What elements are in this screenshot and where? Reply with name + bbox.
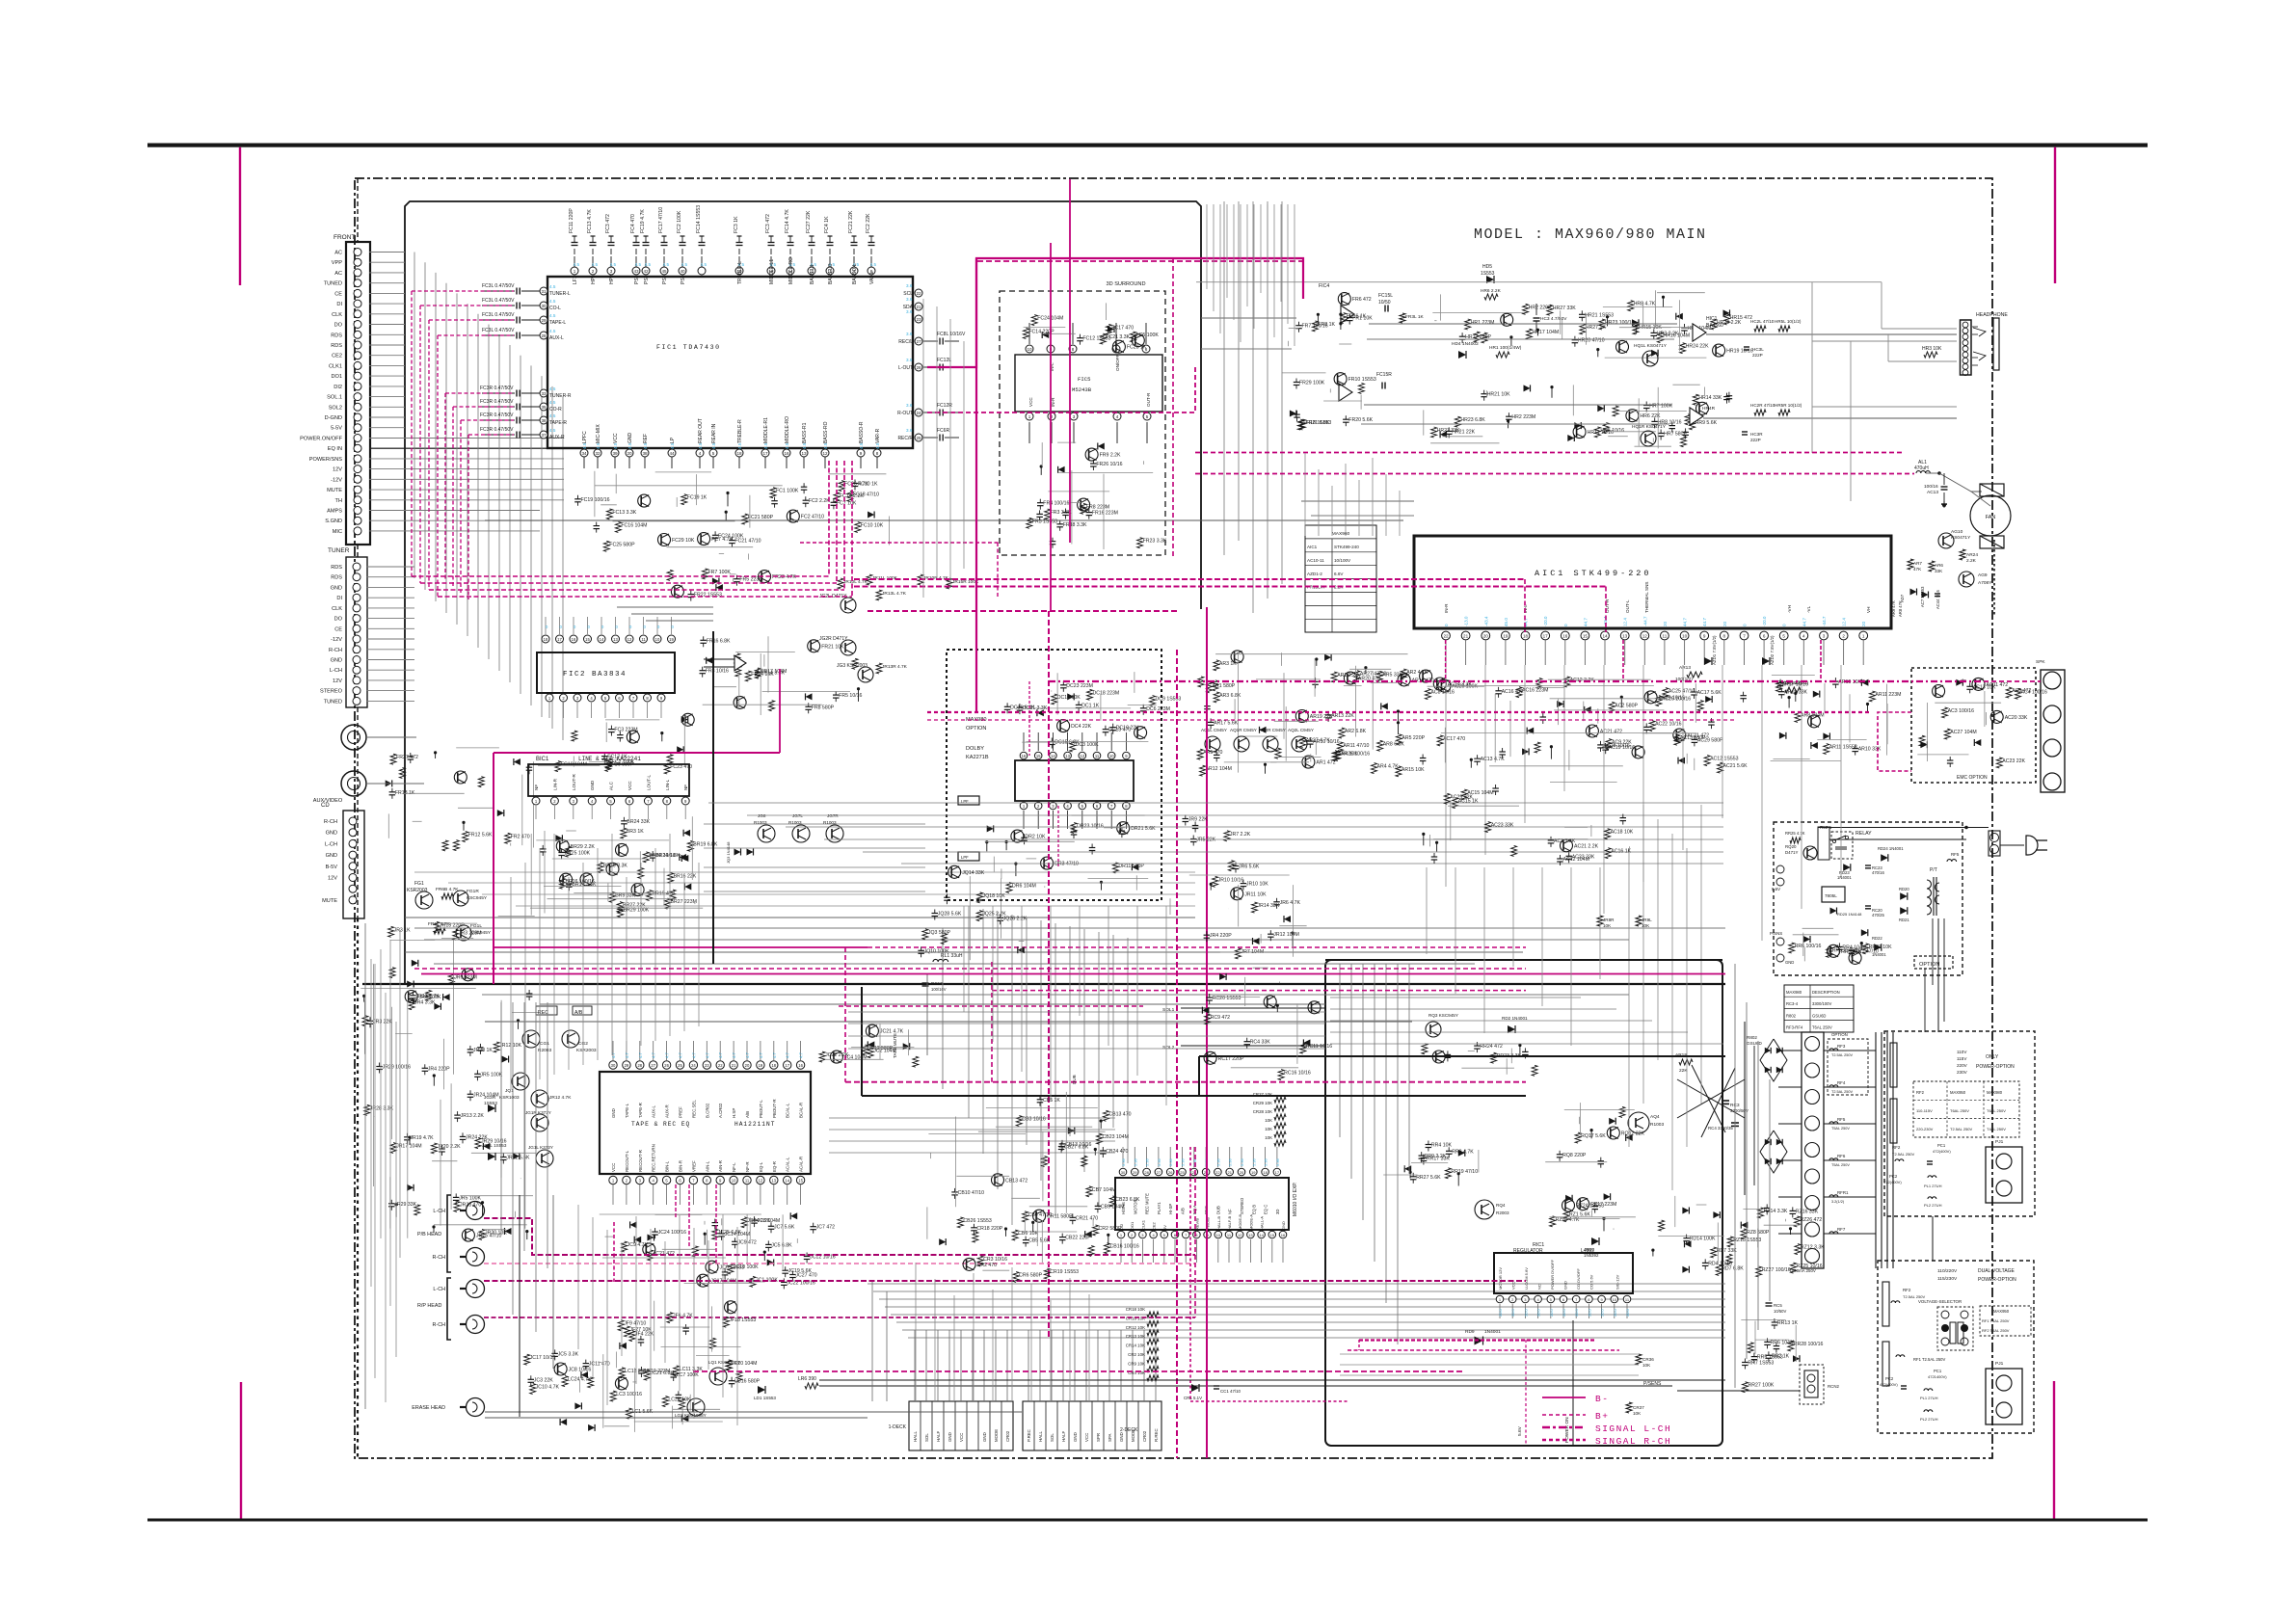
svg-text:CR21 470: CR21 470 [1076,1215,1098,1221]
svg-text:110-115V: 110-115V [1916,1108,1933,1113]
svg-text:20.0: 20.0 [1549,1308,1554,1317]
wires mid right verticals down to power [1628,848,1630,1147]
magenta AIC pin drops [1445,640,1447,681]
svg-text:T4AL 250V: T4AL 250V [1987,1127,2006,1131]
cluster EMC coils caps [1974,739,1981,746]
svg-text:40: 40 [680,269,685,274]
svg-text:FC2 100K: FC2 100K [677,210,682,233]
wire vertical x978 down [942,928,944,1089]
svg-text:AR13: AR13 [1679,665,1691,671]
svg-text:FC25 580P: FC25 580P [609,542,635,547]
svg-text:REC.SEL: REC.SEL [691,1100,696,1118]
svg-text:5.36: 5.36 [1181,1157,1186,1166]
svg-text:AC21 5.6K: AC21 5.6K [1723,763,1749,769]
svg-text:KSR2003: KSR2003 [407,888,428,893]
svg-text:R1003: R1003 [754,820,767,825]
resistor CR37 10K [1626,1402,1632,1413]
svg-text:-12V: -12V [331,637,342,643]
svg-text:JR3 100K: JR3 100K [419,995,441,1000]
magenta vertical x1090 upper [1050,243,1052,611]
svg-text:POWER DV/OFF: POWER DV/OFF [1550,1260,1555,1290]
wire erase head long [485,1021,1412,1023]
svg-text:BR24 33K: BR24 33K [627,819,650,825]
svg-text:SOL2: SOL2 [329,405,342,411]
wire deck tables to M6010 verticals [915,1263,917,1401]
svg-text:KSR2003: KSR2003 [576,1048,597,1053]
cluster dolby lower [1132,864,1138,870]
svg-text:FC3R 0.47/50V: FC3R 0.47/50V [480,399,514,405]
svg-text:U-COM 5.6V: U-COM 5.6V [1524,1267,1529,1290]
svg-text:VAR-R: VAR-R [875,428,881,443]
transistor JQ1 KSR1003 [512,1073,529,1090]
svg-text:SIGNAL L-CH: SIGNAL L-CH [1595,1423,1671,1434]
svg-text:FR27 472: FR27 472 [396,755,418,760]
svg-text:SOL.1: SOL.1 [327,395,342,401]
magenta vertical x1221 dashed [1176,650,1178,1458]
svg-text:AC21 472: AC21 472 [1600,730,1622,735]
svg-text:4.5: 4.5 [549,400,556,405]
svg-text:13: 13 [1065,754,1070,758]
svg-text:5.36: 5.36 [1275,1157,1280,1166]
svg-text:PL2 27UH: PL2 27UH [1920,1417,1938,1422]
svg-text:SPA: SPA [1108,1433,1112,1442]
svg-text:HR27 33K: HR27 33K [1553,306,1576,311]
svg-text:AR15 10K: AR15 10K [1402,767,1425,773]
svg-text:15: 15 [585,637,590,642]
svg-text:AR8 104M: AR8 104M [1801,712,1825,718]
svg-text:HP2: HP2 [609,275,615,284]
svg-text:RZ26 472: RZ26 472 [1800,1217,1822,1223]
svg-text:4.5: 4.5 [681,262,688,267]
transistors AQ1 row [1205,736,1220,752]
svg-text:5.36: 5.36 [1157,1157,1161,1166]
svg-text:4721400V): 4721400V) [1928,1374,1947,1379]
magenta line y1401 [1348,1349,1619,1351]
svg-text:CB27 6.8K: CB27 6.8K [1064,1145,1089,1151]
svg-text:44.7: 44.7 [1683,618,1688,626]
svg-text:VCC: VCC [1028,397,1033,407]
svg-text:4.5: 4.5 [610,262,617,267]
svg-text:MAX980: MAX980 [1786,990,1802,995]
transistor JG7L R1003 [792,825,810,842]
svg-text:CB22 220P: CB22 220P [1065,1236,1091,1241]
svg-text:PC1: PC1 [1934,1369,1942,1373]
svg-text:HC3L: HC3L [1752,347,1764,352]
magenta vertical x1088 [1048,611,1050,1340]
svg-text:RR25 4.7K: RR25 4.7K [1785,831,1805,836]
svg-text:7805L: 7805L [1825,893,1837,898]
svg-text:45.0: 45.0 [1504,618,1508,626]
magenta signal pair to AIC1 [854,578,1525,580]
svg-text:TUNED: TUNED [324,281,342,287]
svg-text:FC11 220P: FC11 220P [569,208,574,233]
svg-text:ONLY: ONLY [1986,1054,1999,1060]
svg-text:32: 32 [595,451,601,456]
svg-text:FC17 47/10: FC17 47/10 [658,207,664,233]
svg-text:10: 10 [1109,754,1114,758]
svg-text:AUX-L: AUX-L [549,335,564,341]
cluster FIC4 R parts [1358,384,1364,394]
svg-text:222P: 222P [1752,353,1763,358]
svg-text:29: 29 [541,318,547,323]
svg-text:10K: 10K [1642,1363,1651,1368]
svg-text:NF-L: NF-L [732,1162,736,1172]
svg-text:CB23 6.8K: CB23 6.8K [1115,1197,1140,1203]
svg-text:HR17 104M: HR17 104M [1533,330,1560,335]
svg-text:CG1: CG1 [540,1041,549,1047]
svg-text:JG1L K373Y: JG1L K373Y [528,1145,553,1150]
magenta amp dashed y491 [1195,473,1914,475]
diodes RD20 RD21 [1900,892,1908,900]
svg-text:FR16 1K: FR16 1K [1347,314,1367,320]
zener AZD2 [1762,657,1770,665]
svg-text:-VL: -VL [1806,605,1811,613]
svg-text:FR3L 1K: FR3L 1K [1405,314,1425,320]
cluster right of FIC2 [755,672,761,674]
svg-text:RF5: RF5 [1837,1117,1846,1122]
svg-text:NF: NF [683,785,688,790]
svg-text:JR3 223M: JR3 223M [459,930,482,936]
magenta amp dashed y469 [1195,452,1903,454]
svg-text:OPTION: OPTION [1919,962,1939,968]
svg-text:TAPE & REC EQ: TAPE & REC EQ [631,1121,690,1128]
long verticals AIC to bottom [1426,867,1428,954]
svg-text:6.6V: 6.6V [1334,572,1344,576]
wire bus BIC1 to right [704,823,925,825]
deck wires up [914,1330,916,1401]
svg-text:10: 10 [1682,634,1688,639]
svg-text:FR3 1S553: FR3 1S553 [1032,519,1057,524]
svg-text:470/16: 470/16 [1872,870,1884,875]
svg-text:RR5 1S553: RR5 1S553 [1757,1355,1783,1361]
svg-text:20: 20 [1483,634,1489,639]
svg-text:JG7L: JG7L [792,813,803,818]
svg-text:KA2271B: KA2271B [966,755,989,760]
svg-text:SPK: SPK [2036,659,2045,665]
svg-text:HR5R 10(1/2): HR5R 10(1/2) [1775,403,1802,408]
svg-text:3300/100V: 3300/100V [1812,1001,1831,1006]
svg-text:5.6V: 5.6V [1517,1425,1523,1436]
svg-text:24: 24 [691,1063,696,1068]
svg-text:FR12 5.6K: FR12 5.6K [468,833,493,838]
magenta verticals tape IC pins [675,1184,677,1218]
svg-text:DR23 10/16: DR23 10/16 [1077,824,1104,830]
svg-text:4.5: 4.5 [663,262,670,267]
svg-text:JR25 47/10: JR25 47/10 [476,1234,502,1239]
svg-text:10: 10 [655,637,660,642]
svg-text:HC3R: HC3R [1750,432,1763,437]
svg-text:4.5: 4.5 [549,284,556,289]
svg-text:AC44 7/16: AC44 7/16 [1936,590,1940,609]
svg-text:PLAY1: PLAY1 [1157,1202,1161,1214]
jack stub wires [366,736,416,738]
svg-text:MODE-A: MODE-A [1248,1214,1253,1230]
svg-text:AQ4: AQ4 [1650,1114,1660,1120]
svg-text:CR02: CR02 [1005,1430,1010,1442]
AIC1 pin drops [1445,640,1447,665]
svg-text:GND: GND [326,853,337,859]
svg-text:16: 16 [1562,634,1568,639]
opamp FIC4 L [1341,306,1354,323]
svg-text:CR19 1S553: CR19 1S553 [1050,1269,1079,1275]
svg-text:13: 13 [613,637,618,642]
svg-text:RR28 100/16: RR28 100/16 [1794,1342,1824,1347]
transistor FG1L KSC945Y [456,925,471,941]
svg-text:-13.0: -13.0 [1464,616,1469,626]
svg-text:AC21 2.2K: AC21 2.2K [1574,843,1599,849]
wire trunk y1042 [540,1003,1325,1005]
wire main B- trunk horizontal [362,983,1725,985]
svg-text:1N4001: 1N4001 [1484,1329,1501,1335]
svg-text:JG2R: JG2R [484,1095,496,1101]
box relay OPTION [1774,822,1962,975]
resistor bank CR27-CR24 top [1274,1097,1286,1103]
svg-text:1: 1 [1028,414,1031,419]
svg-text:115V: 115V [1957,1056,1967,1061]
svg-text:GND: GND [948,1432,952,1442]
thick black trunk y1096 [1199,1055,1725,1057]
svg-text:AZD2 7.5V(1/2): AZD2 7.5V(1/2) [1770,635,1775,665]
FR3L res [1400,313,1405,323]
diode RD25 1N4148 [1830,908,1837,915]
svg-text:VAL-L: VAL-L [869,271,875,284]
svg-text:AR8 47K: AR8 47K [1898,600,1903,617]
svg-text:VOLTAGE-SELECTOR: VOLTAGE-SELECTOR [1918,1299,1962,1304]
svg-text:HR4R: HR4R [1702,406,1716,412]
svg-text:OPTION: OPTION [966,726,986,732]
svg-text:RQ4: RQ4 [1496,1203,1506,1208]
svg-text:38: 38 [642,451,648,456]
box MAX980 OPTION DOLBY [947,650,1161,900]
magenta horizontal y634 [868,610,1177,612]
svg-text:FIC5: FIC5 [1078,376,1090,383]
svg-text:AC25 47/10: AC25 47/10 [1669,689,1695,695]
svg-text:4.7: 4.7 [786,1052,790,1058]
svg-text:PS2: PS2 [644,275,650,284]
magenta trunk y747 thin [927,719,1735,721]
svg-text:RD25 1N4148: RD25 1N4148 [1837,912,1862,917]
svg-text:MIDDLE-L1: MIDDLE-L1 [769,259,775,284]
svg-text:20.0: 20.0 [1574,1308,1579,1317]
cluster power mid transistors [1598,1160,1605,1162]
svg-text:3300/50V: 3300/50V [1730,1108,1749,1113]
svg-text:AR5 220P: AR5 220P [1402,735,1425,741]
magenta tape head routes [484,1218,1195,1255]
svg-text:T6AL 250V: T6AL 250V [1812,1025,1832,1030]
legend B- B+ SIGNAL [1542,1397,1586,1398]
svg-text:RDS: RDS [331,565,342,571]
svg-text:FR13 1K: FR13 1K [395,790,415,796]
svg-text:TAPE-L: TAPE-L [549,320,566,326]
svg-text:FC2 2.2K: FC2 2.2K [809,498,830,504]
svg-text:AR11 47/10: AR11 47/10 [1343,743,1369,749]
svg-text:JC17 10/16: JC17 10/16 [530,1355,556,1361]
cluster FIC4 L parts [1295,325,1302,327]
diode RD9 1N4001 on magenta line [1475,1337,1483,1345]
wire erase long horizontal y1471 [485,1417,868,1419]
svg-text:HR1 223M: HR1 223M [1471,320,1495,326]
svg-text:AR17 10/16: AR17 10/16 [1782,682,1809,688]
svg-text:43: 43 [633,269,639,274]
svg-text:-43.4: -43.4 [1483,616,1488,626]
cap RC4 3300/35 [1731,1122,1739,1124]
svg-text:FR26 10/16: FR26 10/16 [1096,462,1122,467]
svg-text:HR5L 10(1/2): HR5L 10(1/2) [1775,319,1802,324]
svg-text:16: 16 [798,1063,803,1068]
svg-text:RD20: RD20 [1899,887,1909,891]
svg-text:19: 19 [1503,634,1508,639]
svg-text:RC16 10/16: RC16 10/16 [1284,1071,1311,1077]
svg-text:0: 0 [1743,624,1748,626]
svg-text:HALL: HALL [1038,1430,1043,1442]
svg-text:MAX950: MAX950 [1950,1090,1966,1095]
svg-text:PREF: PREF [679,1106,683,1118]
svg-text:P/SENS: P/SENS [1643,1381,1662,1387]
svg-text:-44.7: -44.7 [1642,616,1647,626]
svg-text:CB3 10/16: CB3 10/16 [1022,1117,1046,1123]
svg-text:22: 22 [916,291,921,296]
svg-text:FG1: FG1 [414,881,424,887]
AC socket [1989,831,2000,856]
svg-text:25: 25 [678,1063,682,1068]
svg-text:AC20 33K: AC20 33K [2005,715,2028,721]
svg-text:RF5: RF5 [1951,852,1960,857]
svg-text:CR6 580P: CR6 580P [1019,1273,1042,1279]
svg-text:R1003: R1003 [823,820,837,825]
svg-text:REGULATOR: REGULATOR [1513,1248,1543,1254]
svg-text:P.REC: P.REC [1027,1429,1031,1442]
svg-text:JG3 KSR2003: JG3 KSR2003 [837,663,868,669]
svg-text:AQ1L C945Y: AQ1L C945Y [1201,728,1227,732]
wire headphone arrows [1972,326,1978,328]
svg-text:21: 21 [732,1063,736,1068]
svg-text:10/50: 10/50 [1378,300,1391,306]
svg-text:RD21: RD21 [1899,918,1909,922]
transistor JG8 R1003 [758,825,775,842]
svg-text:1N4001: 1N4001 [1837,875,1852,880]
svg-text:RF1 T2.5AL 250V: RF1 T2.5AL 250V [1913,1357,1945,1362]
svg-text:12.4: 12.4 [1623,618,1628,626]
svg-text:HALL: HALL [913,1430,918,1442]
svg-text:JF18 1S553: JF18 1S553 [729,1317,756,1323]
svg-text:RDS: RDS [331,333,342,338]
left margin long verticals [364,923,366,1409]
svg-text:HALF: HALF [1061,1430,1066,1442]
jack AUX/VIDEO upper [341,725,366,750]
svg-text:AIC1 STK499-220: AIC1 STK499-220 [1535,569,1652,578]
headphone L channel cluster [1713,344,1725,357]
wire trunk y952 [405,917,1195,918]
svg-text:18: 18 [771,1063,776,1068]
AC plug [2026,836,2038,855]
svg-text:FC21 47/10: FC21 47/10 [734,539,761,545]
svg-text:HQ1L KS0471Y: HQ1L KS0471Y [1634,343,1668,349]
svg-text:JQ14 33K: JQ14 33K [962,870,985,876]
svg-text:-20.0: -20.0 [1762,616,1767,626]
svg-text:AUX-R: AUX-R [665,1104,670,1118]
svg-text:B.CR02: B.CR02 [705,1103,709,1118]
wire trunk y1032 [482,994,1629,996]
svg-text:HR21 22K: HR21 22K [1452,429,1475,435]
svg-text:BASS-RO: BASS-RO [823,421,829,443]
svg-text:AC12 1S553: AC12 1S553 [1710,757,1739,762]
wires down from dolby [963,906,965,1012]
cluster bottom power parts [1743,1382,1749,1393]
svg-text:470uH: 470uH [1914,466,1929,471]
svg-text:AR1 472: AR1 472 [1316,760,1335,766]
svg-text:28: 28 [541,333,547,338]
BIC1 pins [532,797,540,805]
cluster relay lower parts [1861,929,1868,936]
svg-text:L-CH: L-CH [330,668,342,674]
diode RZD2 cluster mid [1790,1210,1797,1211]
svg-text:5.36: 5.36 [1215,1157,1220,1166]
svg-text:HR8 4.7K: HR8 4.7K [1634,302,1656,307]
svg-text:RC3-4: RC3-4 [1786,1001,1799,1006]
svg-text:FR2 470: FR2 470 [511,834,530,839]
svg-text:44.7: 44.7 [1802,618,1806,626]
cap HC3 [1534,317,1540,319]
svg-text:AC: AC [334,271,342,277]
svg-text:FC19 4.7K: FC19 4.7K [640,209,646,233]
svg-text:HR14 33K: HR14 33K [1698,395,1722,401]
svg-text:FC3L 0.47/50V: FC3L 0.47/50V [482,312,515,318]
svg-text:A708Y: A708Y [1978,580,1992,586]
svg-text:T2.5AL 250V: T2.5AL 250V [1831,1053,1853,1057]
svg-text:DOLBY: DOLBY [966,746,984,752]
resistor CR36 10K [1636,1354,1642,1365]
svg-text:RR6 100/16: RR6 100/16 [1795,944,1822,949]
svg-text:33K: 33K [1935,569,1943,573]
speaker terminal block [2041,670,2065,792]
svg-text:CR18 10K: CR18 10K [1126,1307,1145,1312]
svg-text:GND: GND [1073,1432,1078,1442]
svg-text:REAR OUT: REAR OUT [698,418,704,443]
svg-text:FIC1 TDA7430: FIC1 TDA7430 [656,344,721,351]
svg-text:A/B: A/B [1181,1208,1186,1214]
svg-text:11: 11 [641,637,646,642]
vertical hatch below top border right [1206,204,1208,289]
diode HD4 [1458,351,1466,359]
svg-text:12: 12 [1080,754,1084,758]
mid horizontal bus y1050-1100 [848,1011,1325,1013]
cluster AIC1 left drive [1213,680,1218,691]
svg-text:FC17 470: FC17 470 [1111,325,1134,331]
IC FIC5 M5243B [1015,355,1162,412]
head P/B L-CH [467,1202,485,1220]
svg-text:JR8R: JR8R [1603,918,1615,922]
svg-text:FC6R: FC6R [937,428,949,434]
svg-text:TUNER-L: TUNER-L [549,291,571,297]
svg-text:T2.5AL 250V: T2.5AL 250V [1892,1152,1915,1157]
svg-text:RR27 5.6K: RR27 5.6K [1416,1175,1441,1181]
svg-text:AC20 100K: AC20 100K [1452,684,1478,690]
svg-text:JF9 47/10: JF9 47/10 [624,1321,646,1327]
resistor FR6B 4.7K [441,893,453,899]
headphone jack body [1993,318,1999,370]
diode JG2R 1S553 [488,1104,495,1112]
svg-text:FR4 100/16: FR4 100/16 [1043,501,1069,507]
svg-text:BIN-R: BIN-R [679,1160,683,1172]
svg-text:RFR1: RFR1 [1837,1190,1849,1195]
svg-text:RD2 1N4001: RD2 1N4001 [1502,1016,1528,1021]
deck box interior verticals [1339,964,1341,1137]
svg-text:18: 18 [736,451,742,456]
svg-text:16: 16 [784,451,789,456]
opamp near FIC2 [734,655,746,671]
cluster tape IC above right [819,1051,825,1062]
vertical bus right of FRONT [414,253,415,579]
